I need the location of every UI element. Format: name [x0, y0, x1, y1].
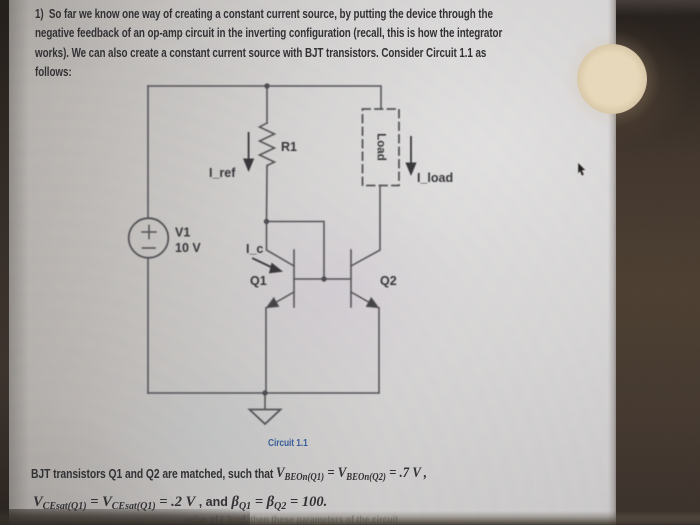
- label R1: [281, 140, 297, 154]
- arrow I_c: [252, 257, 283, 273]
- caption Circuit 1.1: [268, 438, 308, 449]
- wire R1 top lead: [266, 86, 268, 123]
- arrow I_ref: [243, 132, 254, 172]
- label I_load: [417, 171, 453, 185]
- wire node to base link: [267, 222, 325, 280]
- label Q2: [380, 274, 397, 288]
- wire bottom rail: [148, 392, 378, 394]
- node top junction: [264, 83, 269, 88]
- label Q1: [250, 274, 267, 288]
- label 10 V: [175, 241, 201, 255]
- load box: [363, 109, 400, 186]
- wire left rail lower: [147, 258, 149, 393]
- node base junction: [321, 276, 326, 281]
- ground: [250, 393, 281, 424]
- wire Q1 collector lead: [267, 222, 295, 267]
- wire left rail upper: [147, 86, 149, 218]
- wire Q2 emitter lead: [378, 308, 380, 393]
- wire top rail: [148, 86, 381, 109]
- resistor R1: [260, 123, 275, 167]
- transistor Q1: [266, 250, 294, 308]
- label Load: [374, 133, 386, 160]
- wire base rail: [294, 278, 351, 280]
- label I_ref: [209, 166, 236, 180]
- node R1 bottom junction: [264, 219, 269, 224]
- voltage source V1: [129, 218, 169, 258]
- label V1: [175, 226, 190, 240]
- transistor Q2: [351, 250, 379, 308]
- wire Q1 emitter lead: [265, 308, 267, 393]
- wire R1 bottom lead: [266, 167, 269, 221]
- label I_c: [246, 242, 263, 256]
- node ground junction: [262, 390, 267, 395]
- mouse cursor: [577, 163, 587, 177]
- arrow I_load: [405, 136, 416, 176]
- wire Q2 collector lead: [351, 186, 380, 267]
